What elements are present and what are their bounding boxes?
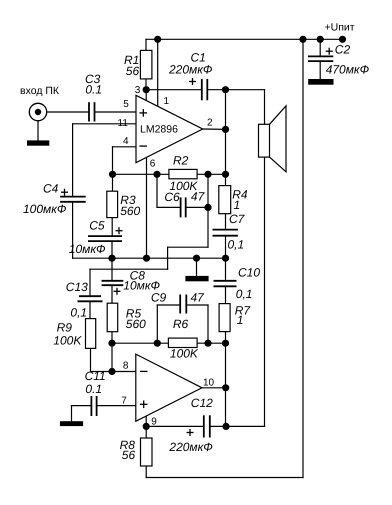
svg-text:100K: 100K	[53, 334, 82, 348]
svg-text:1: 1	[234, 198, 241, 212]
svg-text:C12: C12	[191, 396, 213, 410]
svg-text:11: 11	[118, 118, 129, 129]
svg-text:R6: R6	[173, 317, 189, 331]
svg-text:LM2896: LM2896	[140, 124, 178, 136]
svg-text:C7: C7	[229, 212, 246, 226]
svg-text:2: 2	[207, 118, 213, 129]
svg-text:56: 56	[126, 64, 140, 78]
svg-text:3: 3	[135, 85, 141, 96]
svg-text:47: 47	[191, 190, 206, 204]
svg-text:+Uпит: +Uпит	[325, 21, 355, 33]
svg-text:1: 1	[164, 96, 170, 107]
svg-text:100мкФ: 100мкФ	[23, 202, 67, 216]
svg-text:8: 8	[123, 360, 129, 371]
svg-text:R9: R9	[57, 321, 73, 335]
svg-text:6: 6	[150, 159, 156, 170]
svg-text:C11: C11	[85, 369, 106, 383]
svg-text:470мкФ: 470мкФ	[326, 62, 370, 76]
svg-text:C9: C9	[151, 291, 167, 305]
svg-text:C2: C2	[335, 43, 351, 57]
svg-text:10: 10	[203, 377, 215, 388]
svg-text:0,1: 0,1	[236, 287, 253, 301]
svg-text:C6: C6	[164, 190, 180, 204]
svg-text:7: 7	[121, 396, 127, 407]
svg-text:47: 47	[191, 291, 206, 305]
svg-text:C10: C10	[238, 265, 260, 279]
svg-text:вход ПК: вход ПК	[20, 85, 60, 97]
svg-text:0.1: 0.1	[85, 82, 102, 96]
svg-text:0,1: 0,1	[70, 306, 87, 320]
svg-text:R2: R2	[173, 153, 189, 167]
svg-text:220мкФ: 220мкФ	[168, 62, 213, 76]
svg-text:0,1: 0,1	[228, 237, 245, 251]
svg-text:56: 56	[122, 448, 136, 462]
svg-text:560: 560	[120, 204, 140, 218]
svg-text:10мкФ: 10мкФ	[69, 242, 106, 256]
svg-text:220мкФ: 220мкФ	[168, 440, 213, 454]
svg-text:4: 4	[123, 136, 129, 147]
svg-text:1: 1	[237, 313, 244, 327]
svg-text:560: 560	[126, 317, 146, 331]
svg-text:C13: C13	[66, 280, 88, 294]
svg-text:C5: C5	[89, 218, 105, 232]
svg-text:C4: C4	[43, 182, 59, 196]
svg-text:9: 9	[151, 417, 157, 428]
svg-text:0.1: 0.1	[85, 382, 102, 396]
svg-text:5: 5	[123, 99, 129, 110]
svg-text:100K: 100K	[170, 347, 199, 361]
